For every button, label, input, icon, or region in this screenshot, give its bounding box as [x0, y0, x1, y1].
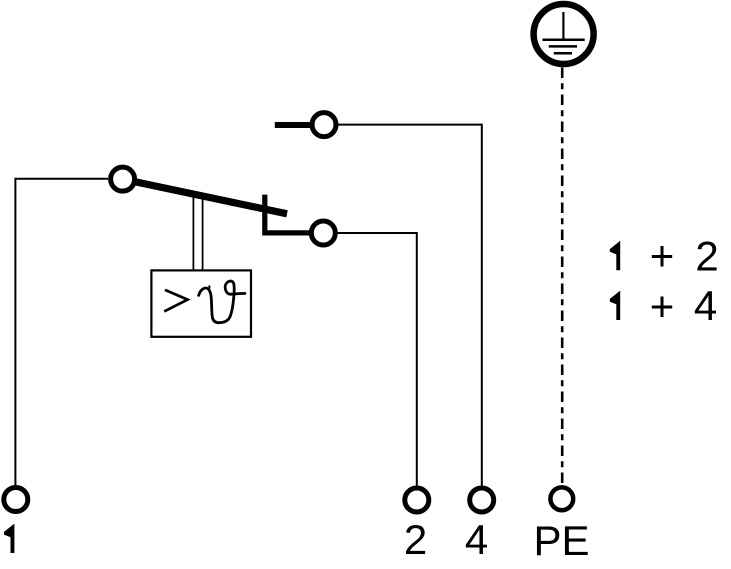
terminal PE circle	[550, 487, 573, 510]
terminal 2 circle	[405, 488, 429, 512]
pivot contact circle	[111, 167, 135, 191]
contact circle 2	[311, 221, 335, 245]
svg-text:+: +	[650, 232, 675, 279]
label terminal 1	[4, 524, 14, 553]
svg-text:4: 4	[694, 282, 717, 329]
earth symbol bar 3	[554, 52, 572, 55]
wire from contact 2 to terminal 2	[336, 233, 417, 486]
dashed PE wire	[561, 68, 564, 485]
contact combination row 1: 1 + 2	[610, 241, 620, 270]
theta (temperature) symbol in box	[199, 281, 245, 323]
terminal 1 circle	[4, 488, 28, 512]
earth symbol bar 1	[543, 39, 585, 42]
wire from pivot contact to terminal 1	[15, 179, 108, 486]
thick lead left of NO contact	[275, 122, 316, 128]
switch arm (movable contact)	[123, 179, 287, 214]
earth symbol bar 2	[549, 45, 577, 48]
wire from NO contact to terminal 4	[337, 125, 482, 486]
thermal trip box	[151, 270, 251, 336]
greater-than sign in box	[164, 290, 187, 312]
terminal 4 circle	[470, 488, 494, 512]
NO contact circle (top)	[312, 113, 336, 137]
protective earth symbol circle	[534, 4, 594, 64]
earth symbol vertical stroke	[562, 12, 564, 40]
svg-text:2: 2	[695, 232, 718, 279]
theta cusp tick	[208, 285, 210, 288]
mechanical link (double line)	[192, 197, 194, 270]
contact combination row 2: 1 + 4	[610, 291, 620, 320]
svg-text:4: 4	[465, 516, 488, 563]
fixed contact L-bar for contact 2	[265, 195, 312, 233]
svg-text:2: 2	[404, 516, 427, 563]
svg-text:+: +	[650, 283, 675, 330]
svg-text:PE: PE	[533, 517, 589, 564]
